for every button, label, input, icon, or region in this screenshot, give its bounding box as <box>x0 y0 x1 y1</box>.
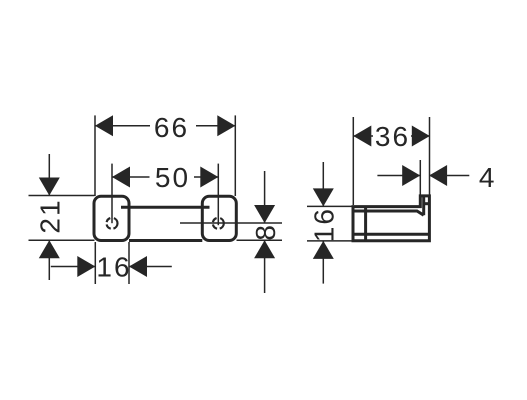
wire ext line 66 left <box>94 115 96 196</box>
wire dim line 16 side upper tail <box>322 162 324 206</box>
arrow 21 down <box>39 178 60 196</box>
wire dim line 8 upper tail <box>264 171 266 223</box>
side lip inner vertical <box>422 196 425 215</box>
arrow 16 side up <box>313 241 334 259</box>
wire dim line 8 lower tail <box>264 240 266 293</box>
wire dim line 21 upper tail <box>48 154 50 196</box>
arrows <box>39 115 447 277</box>
wire dim line 36 right seg <box>411 135 430 137</box>
arrow 16 bottom left-pointing <box>129 256 147 277</box>
arrow 36 right <box>412 126 430 147</box>
svg-text:16: 16 <box>96 252 131 283</box>
wire ext line 21 bottom <box>29 239 95 241</box>
wire dim line 50 left seg <box>112 176 150 178</box>
svg-text:66: 66 <box>154 112 189 143</box>
arrow 50 left <box>112 167 130 188</box>
side inner top edge <box>353 211 424 215</box>
svg-text:16: 16 <box>309 207 340 242</box>
thin lines group <box>29 115 470 293</box>
wire dim line 21 lower tail <box>48 240 50 280</box>
wire ext line 21 top <box>29 195 95 197</box>
svg-text:8: 8 <box>250 223 281 241</box>
side outer contour <box>353 196 429 241</box>
arrow 4 left-pointing <box>429 165 447 186</box>
wire centerline ext 8 upper <box>180 222 282 224</box>
wire ext line 16 side top <box>307 205 352 207</box>
svg-text:21: 21 <box>34 198 65 233</box>
wire centerline hole left <box>111 164 113 224</box>
arrow 16 bottom right-pointing <box>77 256 95 277</box>
svg-text:36: 36 <box>375 121 410 152</box>
arrow 66 left <box>95 115 113 136</box>
wire ext line 36 left <box>352 117 354 205</box>
arrow 21 up <box>39 240 60 258</box>
arrow 36 left <box>353 126 371 147</box>
wire dim line 36 left seg <box>353 135 373 137</box>
wire dim line 66 left seg <box>95 125 150 127</box>
wire ext line 36 right <box>429 117 431 195</box>
arrow 4 right-pointing <box>402 165 420 186</box>
wire dim line 16 side lower tail <box>322 241 324 284</box>
wire ext line 8 lower <box>237 239 283 241</box>
side lip inner horizontal <box>424 202 430 205</box>
wire dim line 4 left tail <box>377 175 420 177</box>
wire dim line 4 right tail <box>429 175 469 177</box>
side inner vertical backplate <box>364 207 367 241</box>
wire dim line 16 right tail <box>129 266 172 268</box>
arrow 16 side down <box>313 188 334 206</box>
bar top edge <box>121 206 210 209</box>
wire centerline hole right <box>217 164 219 226</box>
wire ext line 16 bottom right <box>128 242 130 284</box>
arrow 8 down <box>254 205 275 223</box>
wire dim line 16 left tail <box>51 266 96 268</box>
wire ext line 16 side bottom <box>307 240 352 242</box>
wire ext line 4 left <box>419 160 421 195</box>
arrow 8 up <box>254 240 275 258</box>
side view thick outline <box>353 196 429 241</box>
hole right dashed <box>213 218 224 229</box>
arrow 66 right <box>217 115 235 136</box>
svg-text:4: 4 <box>479 162 497 193</box>
wire ext line 66 right <box>234 115 236 196</box>
svg-text:50: 50 <box>155 162 190 193</box>
wire dim line 66 right seg <box>196 125 235 127</box>
wire dim line 50 right seg <box>194 176 218 178</box>
front view thick outline <box>94 196 236 240</box>
left mounting block <box>94 196 129 240</box>
hole left dashed <box>107 218 118 229</box>
arrow 50 right <box>200 167 218 188</box>
bar bottom edge <box>129 239 202 242</box>
wire ext line 16 bottom left <box>94 242 96 284</box>
right mounting block <box>202 196 236 240</box>
side inner bottom edge <box>353 233 429 236</box>
